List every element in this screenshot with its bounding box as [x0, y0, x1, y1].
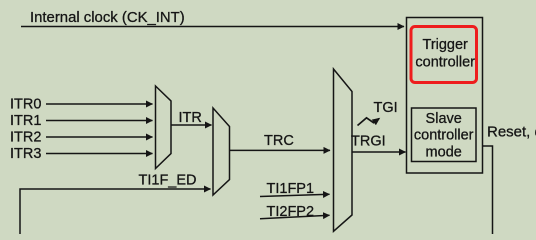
wire: ITR1 to mux U1 — [46, 120, 153, 122]
wire: TRC from mux U2 to mux U3 — [230, 149, 331, 151]
wire: ITR from mux U1 to mux U2 — [171, 124, 212, 126]
svg-text:controller: controller — [415, 54, 475, 70]
svg-text:ITR: ITR — [179, 110, 202, 126]
highlight box: trigger controller (red) — [411, 27, 477, 83]
svg-text:ITR0: ITR0 — [10, 97, 41, 113]
wire: internal clock CK_INT to trigger controller — [21, 26, 404, 28]
wire: TI1F_ED from bottom left to mux U2 — [20, 189, 211, 234]
event arrow: TGI interrupt squiggle — [358, 118, 380, 126]
multiplexer U1 (ITR source select) — [156, 86, 172, 169]
svg-text:ITR1: ITR1 — [10, 113, 41, 129]
svg-text:ITR2: ITR2 — [10, 130, 41, 146]
svg-text:TGI: TGI — [374, 100, 398, 116]
svg-text:controller: controller — [414, 128, 474, 144]
svg-text:Reset, en: Reset, en — [487, 124, 536, 141]
svg-text:TRGI: TRGI — [351, 133, 386, 149]
wire: TI2FP2 to mux U3 — [260, 215, 330, 219]
wire: reset/enable output going down — [483, 146, 493, 234]
svg-text:Trigger: Trigger — [423, 37, 469, 53]
block: slave mode controller — [412, 108, 477, 162]
svg-text:Slave: Slave — [426, 111, 462, 127]
svg-text:TRC: TRC — [264, 133, 294, 149]
svg-text:TI1F_ED: TI1F_ED — [139, 172, 197, 188]
wire: ITR0 to mux U1 — [46, 103, 153, 105]
svg-text:ITR3: ITR3 — [10, 146, 41, 162]
wire: TI1FP1 to mux U3 — [260, 194, 330, 196]
wire: ITR2 to mux U1 — [46, 136, 153, 138]
wire: TRGI from mux U3 to slave mode controller — [352, 151, 406, 153]
svg-text:mode: mode — [426, 144, 462, 160]
multiplexer U3 (trigger input select) — [334, 69, 353, 231]
block: trigger controller outer box — [407, 18, 483, 174]
svg-text:Internal clock (CK_INT): Internal clock (CK_INT) — [30, 10, 185, 26]
wire: ITR3 to mux U1 — [46, 153, 153, 155]
multiplexer U2 (TRC select) — [213, 108, 230, 195]
